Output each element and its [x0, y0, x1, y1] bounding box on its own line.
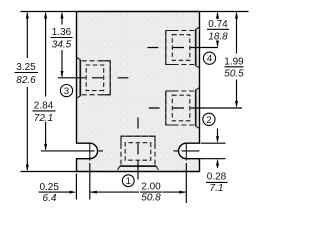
terminal 4 tab (upper right)	[166, 27, 200, 68]
svg-text:3.25: 3.25	[16, 62, 36, 73]
svg-text:4: 4	[207, 54, 212, 65]
dim 0.74/18.8 line	[217, 13, 219, 46]
0.28 up arrow at slot bottom ext	[216, 159, 219, 166]
up arrows at top extension	[26, 12, 29, 19]
down arrow 3.25 at bottom ext	[26, 165, 29, 172]
circled terminal numbers	[60, 52, 215, 187]
left mounting slot center mark	[89, 143, 91, 161]
svg-text:1.99: 1.99	[224, 56, 244, 67]
svg-text:50.8: 50.8	[141, 193, 161, 204]
down arrow 0.74 at terminal 4 centerline	[216, 41, 219, 48]
bottom edge extension line (left)	[21, 171, 77, 173]
down arrow 2.84 at slot centerline	[44, 144, 47, 151]
dim 1.99/50.5 line	[236, 13, 238, 106]
0.25 dim right-pointing arrow at body edge ext	[69, 191, 76, 194]
svg-text:18.8: 18.8	[208, 32, 228, 43]
svg-text:0.74: 0.74	[208, 19, 228, 30]
right slot centerline (vertical, extension for 2.00 dim)	[185, 163, 187, 203]
dim 0.25 line + 2.00 line	[39, 191, 71, 193]
2.00 dim right-pointing arrow at right slot centerline	[179, 191, 186, 194]
0.28 down arrow at slot top ext	[216, 136, 219, 143]
right mounting slot center mark	[185, 143, 187, 161]
svg-text:72.1: 72.1	[34, 113, 53, 124]
terminal label 3	[60, 85, 72, 97]
svg-text:3: 3	[64, 86, 69, 97]
svg-text:6.4: 6.4	[43, 193, 57, 204]
right slot centerline (horizontal, inside body)	[174, 150, 200, 152]
top edge extension line (right)	[200, 11, 249, 13]
svg-text:0.25: 0.25	[39, 182, 59, 193]
left slot centerline (horizontal, to 2.84 arrow)	[41, 150, 103, 152]
down arrow 1.36 at terminal 3 centerline	[61, 71, 64, 78]
svg-text:0.28: 0.28	[207, 171, 227, 182]
terminal 3 tab (left)	[77, 57, 111, 98]
left slot centerline (vertical, extension for 2.00 dim)	[89, 163, 91, 200]
svg-text:2.84: 2.84	[34, 101, 54, 112]
terminal 2 tab (lower right)	[166, 88, 200, 129]
svg-text:82.6: 82.6	[16, 75, 36, 86]
dim 2.84/72.1 line	[45, 13, 47, 149]
svg-text:2.00: 2.00	[141, 182, 161, 193]
body outline (SSR package)	[77, 12, 200, 172]
dim 1.36/34.5 line	[61, 13, 63, 77]
0.28 dim lines	[217, 129, 219, 141]
svg-text:50.5: 50.5	[224, 69, 244, 80]
top edge extension line (left)	[21, 11, 77, 13]
terminal 3 centerline	[58, 77, 128, 79]
extension: body left edge for 0.25 dim	[75, 174, 77, 200]
terminal label 2	[203, 113, 215, 125]
0.28/7.1 extension lines (right slot width)	[201, 142, 226, 144]
terminal label 4	[203, 52, 215, 64]
svg-text:1: 1	[126, 176, 131, 187]
svg-text:2: 2	[206, 115, 211, 126]
svg-text:34.5: 34.5	[52, 40, 72, 51]
terminal 1 centerline	[137, 118, 139, 180]
terminal 2 centerline	[149, 107, 242, 109]
arrowheads	[26, 12, 238, 194]
terminal 4 centerline	[148, 47, 219, 49]
svg-text:1.36: 1.36	[52, 27, 72, 38]
dim 3.25/82.6 line	[26, 13, 28, 170]
down arrow 1.99 at terminal 2 centerline	[235, 101, 238, 108]
dimension texts	[15, 19, 245, 204]
svg-text:7.1: 7.1	[210, 183, 224, 194]
terminal 1 tab (bottom center)	[118, 136, 159, 170]
2.00 dim left-pointing arrow at left slot centerline	[90, 191, 97, 194]
terminal label 1	[122, 175, 134, 187]
